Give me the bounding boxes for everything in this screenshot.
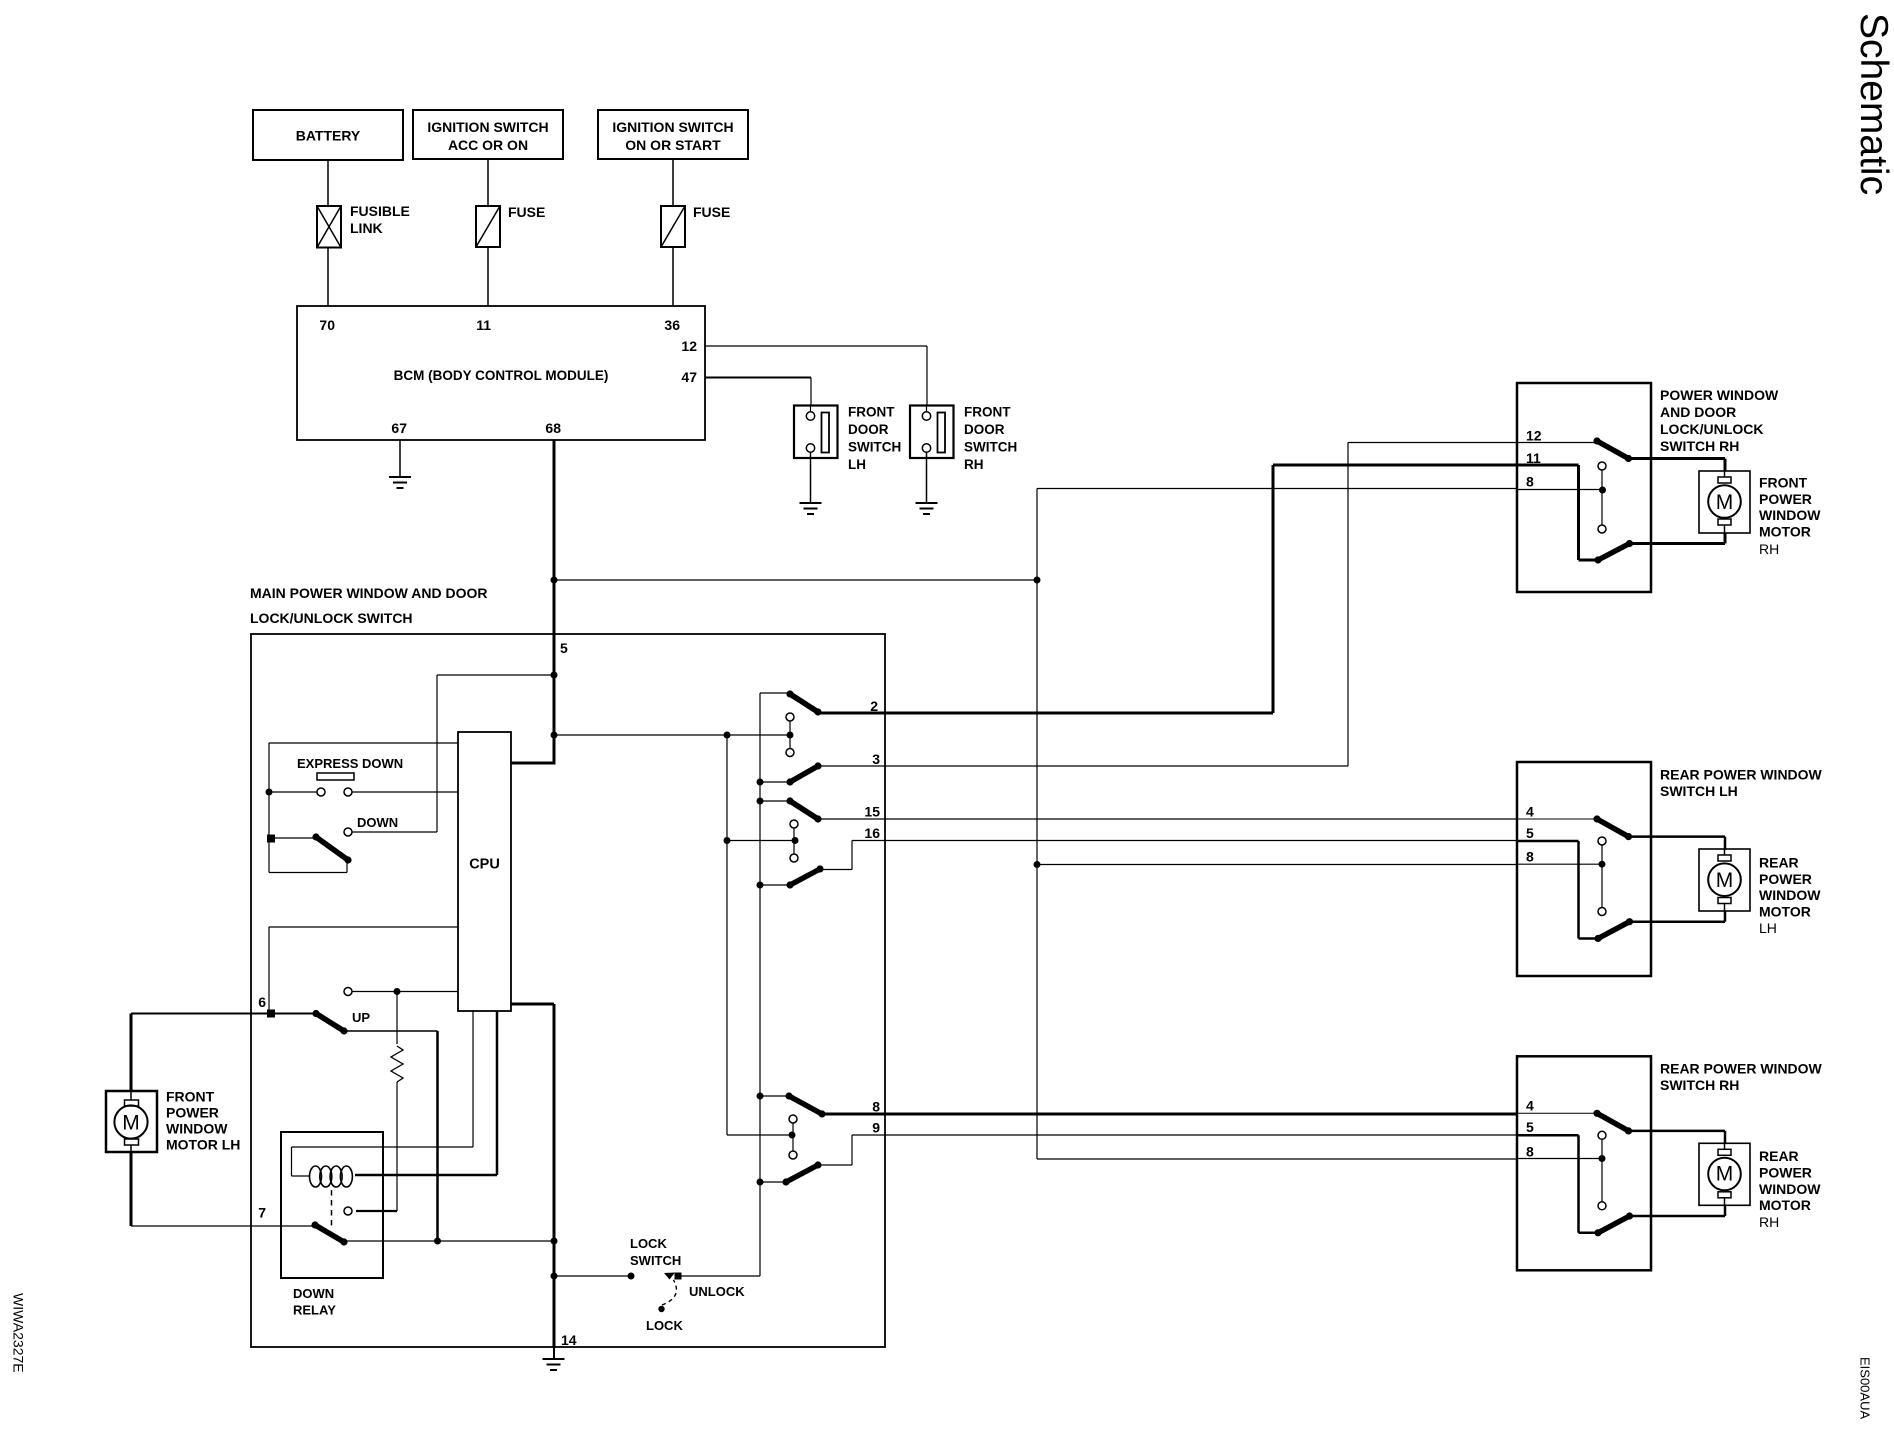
svg-text:DOWN: DOWN [357,815,398,830]
svg-text:BCM (BODY CONTROL MODULE): BCM (BODY CONTROL MODULE) [394,368,609,383]
svg-text:5: 5 [1526,1119,1534,1135]
svg-text:M: M [1716,869,1734,892]
svg-text:RH: RH [964,457,984,472]
svg-text:5: 5 [560,640,568,656]
svg-text:11: 11 [1526,450,1541,466]
svg-text:9: 9 [872,1120,880,1136]
svg-text:M: M [1716,491,1734,514]
svg-text:8: 8 [872,1099,880,1115]
svg-text:67: 67 [391,420,407,436]
svg-text:RH: RH [1759,1214,1779,1230]
svg-text:WINDOW: WINDOW [1759,507,1821,523]
svg-text:MOTOR: MOTOR [1759,904,1811,920]
svg-text:EXPRESS DOWN: EXPRESS DOWN [297,756,403,771]
svg-text:36: 36 [664,317,680,333]
svg-text:8: 8 [1526,474,1534,490]
svg-text:MOTOR: MOTOR [1759,524,1811,540]
svg-text:SWITCH RH: SWITCH RH [1660,1077,1739,1093]
svg-text:MOTOR LH: MOTOR LH [166,1137,240,1153]
svg-text:DOWN: DOWN [293,1286,334,1301]
svg-text:BATTERY: BATTERY [296,128,361,144]
svg-text:LOCK: LOCK [630,1236,667,1251]
svg-text:LH: LH [848,457,866,472]
svg-text:WINDOW: WINDOW [166,1121,228,1137]
svg-text:47: 47 [681,369,697,385]
svg-text:POWER: POWER [166,1105,219,1121]
svg-text:FUSE: FUSE [508,204,545,220]
svg-text:LH: LH [1759,920,1777,936]
svg-text:8: 8 [1526,849,1534,865]
svg-text:ON OR START: ON OR START [625,137,721,153]
svg-text:REAR POWER WINDOW: REAR POWER WINDOW [1660,1061,1823,1077]
svg-text:EIS00AUA: EIS00AUA [1858,1357,1873,1419]
svg-text:MOTOR: MOTOR [1759,1197,1811,1213]
svg-text:M: M [122,1112,140,1135]
svg-text:POWER: POWER [1759,871,1812,887]
svg-text:ACC OR ON: ACC OR ON [448,137,528,153]
svg-text:WIWA2327E: WIWA2327E [11,1293,27,1373]
svg-text:RH: RH [1759,541,1779,557]
svg-text:2: 2 [870,698,878,714]
svg-text:11: 11 [476,317,491,333]
svg-text:70: 70 [319,317,335,333]
svg-text:POWER WINDOW: POWER WINDOW [1660,387,1779,403]
svg-text:REAR: REAR [1759,855,1799,871]
svg-text:4: 4 [1526,1098,1534,1114]
svg-text:FRONT: FRONT [848,405,895,420]
svg-text:8: 8 [1526,1144,1534,1160]
svg-text:6: 6 [258,994,266,1010]
svg-text:15: 15 [864,804,880,820]
svg-text:FRONT: FRONT [964,405,1011,420]
svg-text:DOOR: DOOR [848,422,889,437]
svg-text:SWITCH LH: SWITCH LH [1660,783,1738,799]
svg-text:MAIN POWER WINDOW AND DOOR: MAIN POWER WINDOW AND DOOR [250,585,487,601]
svg-text:Schematic: Schematic [1852,13,1894,195]
svg-text:AND DOOR: AND DOOR [1660,404,1736,420]
svg-text:UP: UP [352,1010,370,1025]
svg-text:5: 5 [1526,825,1534,841]
svg-text:WINDOW: WINDOW [1759,887,1821,903]
svg-text:REAR POWER WINDOW: REAR POWER WINDOW [1660,767,1823,783]
svg-text:M: M [1716,1163,1734,1186]
svg-text:SWITCH RH: SWITCH RH [1660,438,1739,454]
svg-text:68: 68 [545,420,561,436]
svg-text:3: 3 [872,751,880,767]
svg-text:RELAY: RELAY [293,1303,336,1318]
svg-text:12: 12 [1526,428,1542,444]
svg-text:IGNITION SWITCH: IGNITION SWITCH [612,119,733,135]
svg-text:LOCK: LOCK [646,1318,683,1333]
svg-text:DOOR: DOOR [964,422,1005,437]
svg-text:POWER: POWER [1759,1165,1812,1181]
svg-text:LINK: LINK [350,220,383,236]
svg-text:FRONT: FRONT [1759,475,1808,491]
svg-text:4: 4 [1526,804,1534,820]
svg-text:12: 12 [681,338,697,354]
svg-text:7: 7 [258,1205,266,1221]
svg-text:IGNITION SWITCH: IGNITION SWITCH [427,119,548,135]
svg-text:16: 16 [864,825,880,841]
svg-text:SWITCH: SWITCH [848,440,901,455]
svg-text:CPU: CPU [469,857,500,873]
svg-text:FRONT: FRONT [166,1089,215,1105]
svg-text:FUSIBLE: FUSIBLE [350,203,410,219]
svg-text:UNLOCK: UNLOCK [689,1284,745,1299]
svg-text:LOCK/UNLOCK SWITCH: LOCK/UNLOCK SWITCH [250,610,413,626]
svg-text:FUSE: FUSE [693,204,730,220]
svg-text:SWITCH: SWITCH [630,1253,681,1268]
svg-text:SWITCH: SWITCH [964,440,1017,455]
svg-text:POWER: POWER [1759,491,1812,507]
svg-text:14: 14 [561,1332,577,1348]
svg-text:LOCK/UNLOCK: LOCK/UNLOCK [1660,421,1763,437]
svg-text:REAR: REAR [1759,1148,1799,1164]
svg-text:WINDOW: WINDOW [1759,1181,1821,1197]
